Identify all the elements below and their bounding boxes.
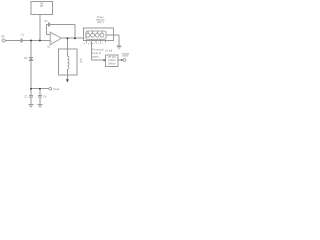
svg-text:output: output [92,55,99,58]
svg-text:DMM m: DMM m [108,63,116,65]
svg-text:C2: C2 [44,19,48,23]
lead down to ground [118,35,120,46]
feedback top wire right of C2 [50,24,75,26]
svg-text:D1: D1 [24,56,28,60]
op-amp output wire [61,37,83,39]
feedback right leg [74,25,76,39]
svg-text:HP 346: HP 346 [108,57,116,59]
connector bottom pin [90,39,92,60]
capacitor C2 [47,22,49,26]
capacitor C4 [38,95,42,97]
svg-text:C3: C3 [24,94,28,98]
bottom wire to output terminal [31,88,49,90]
capacitor C3 [29,95,33,97]
ground below C4 [38,104,43,106]
connector pin 2 [91,33,95,37]
connector pin stub 4 [101,31,103,33]
bottom stub pin 1 [86,41,88,43]
svg-text:U2 adj: U2 adj [105,51,112,53]
connector pin 3 [95,33,99,37]
junction dot E [30,88,32,90]
big box (power detector) [84,28,114,41]
svg-text:4k: 4k [80,62,83,64]
wire diode to bottom node [30,61,32,89]
bottom stub pin 2 [95,41,97,43]
svg-text:1M: 1M [40,5,43,8]
inductor L1 [67,56,69,69]
connector pin stub 3 [96,31,98,33]
arrowhead into meter box [104,59,106,61]
wire node to capacitor C3 [30,89,32,96]
svg-text:b+ g1 o2 s3 v-x: b+ g1 o2 s3 v-x [84,43,104,45]
arrowhead to output circle [121,59,123,61]
diode D1 [29,56,33,58]
feedback wire left leg [46,25,48,35]
op-amp U1 [50,32,61,45]
connector body [86,31,106,39]
svg-text:(DUT): (DUT) [97,21,104,24]
meter box U2 [106,55,118,66]
svg-text:+: + [51,40,53,43]
svg-text:Vout: Vout [53,87,59,91]
wire to meter box [91,59,104,61]
bottom stub pin 3 [100,41,102,43]
wire inductor to ground [66,69,68,79]
connector pin 4 [100,33,104,37]
wire R1 box to main wire [39,14,41,40]
junction dot B [39,40,41,42]
junction dot A [30,40,32,42]
resistor box R1 [31,1,52,14]
ground below C3 [29,104,34,106]
svg-text:For remote: For remote [92,49,104,52]
wire C3 to ground [30,97,32,104]
ground arrow below L1 [66,79,69,82]
wire C4 to ground [39,97,41,104]
output terminal circle [49,87,52,90]
junction dot F [39,88,41,90]
feedback top wire left of C2 [47,24,49,26]
connector pin stub 1 [87,31,89,33]
wire meter to output circle [118,59,123,61]
capacitor C1 [20,38,22,42]
filter box [59,49,77,75]
connector pin 1 [86,33,90,37]
output circle right [123,59,126,62]
svg-text:C4: C4 [43,94,47,98]
svg-text:34401A: 34401A [108,59,116,62]
svg-text:U1: U1 [47,45,51,49]
connector pin stub 2 [92,31,94,33]
wire node to capacitor C4 [39,89,41,96]
wire cap C1 to op-amp input [22,40,50,42]
wire input to cap C1 [5,40,20,42]
junction dot D [74,37,76,39]
wire node to diode [30,41,32,58]
input terminal J1 [2,39,5,42]
ground right [116,45,121,47]
junction dot C [66,37,68,39]
bottom stub pin 4 [104,41,106,43]
svg-text:C1: C1 [21,32,25,36]
connector right lead [106,34,119,36]
svg-text:output: output [122,55,129,58]
wire output node down to filter box [66,38,68,56]
svg-text:RF: RF [1,35,5,39]
